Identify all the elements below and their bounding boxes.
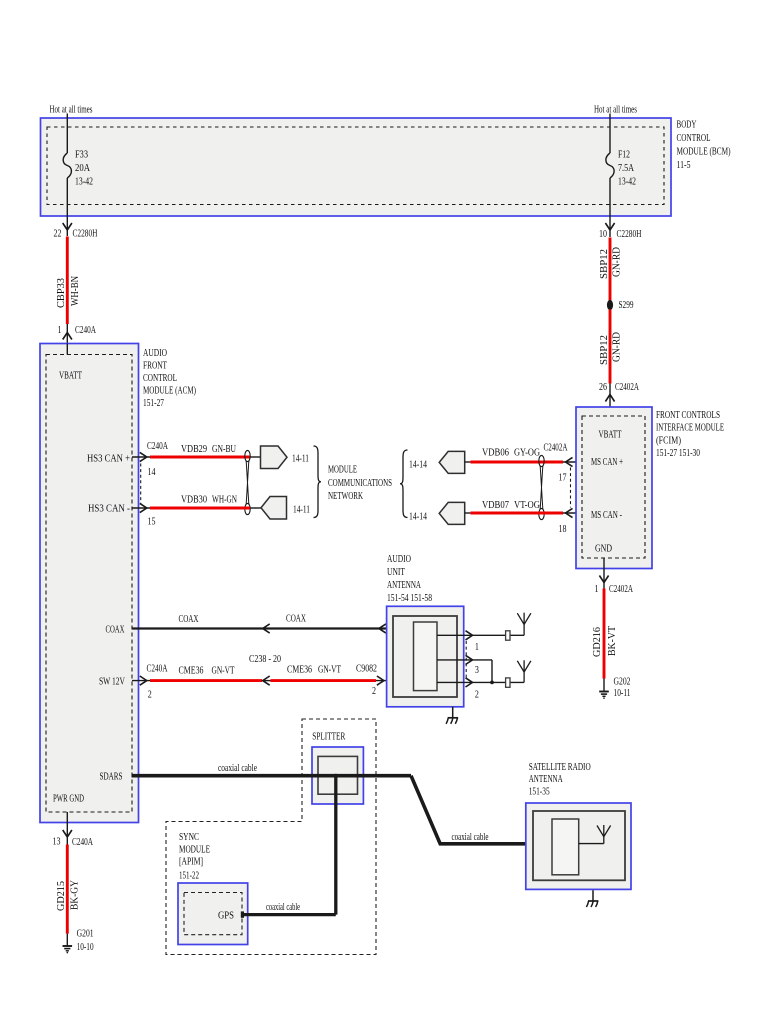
svg-text:CME36: CME36 (287, 665, 312, 676)
svg-text:VDB29: VDB29 (181, 444, 207, 455)
off-page connector 14-14 upper (pentagon) (439, 451, 465, 473)
svg-text:GY-OG: GY-OG (514, 448, 541, 459)
pin SDARS of ACM (100, 772, 123, 783)
svg-text:C240A: C240A (147, 441, 168, 452)
svg-text:[APIM]: [APIM] (179, 857, 203, 868)
wire: antenna pin 2 (437, 678, 524, 701)
svg-text:MODULE (BCM): MODULE (BCM) (677, 147, 731, 158)
svg-text:13: 13 (53, 837, 61, 848)
svg-text:10-11: 10-11 (614, 688, 631, 699)
svg-text:HS3 CAN +: HS3 CAN + (87, 454, 130, 465)
connector dashes antenna pins (465, 641, 467, 678)
svg-text:17: 17 (559, 473, 567, 484)
wire: stub to pentagon 14-11 lower (250, 507, 261, 509)
svg-text:COAX: COAX (286, 614, 306, 625)
pin GND of FCIM (595, 544, 612, 555)
svg-text:MS CAN +: MS CAN + (591, 457, 623, 468)
connector dashes C2402A pins 17-18 (570, 468, 572, 508)
wire: pentagon stub upper (465, 461, 471, 463)
svg-text:ANTENNA: ANTENNA (529, 774, 563, 785)
label AUDIO UNIT ANTENNA (387, 554, 432, 604)
svg-text:CONTROL: CONTROL (677, 133, 711, 144)
svg-text:MODULE: MODULE (179, 845, 210, 856)
svg-text:151-22: 151-22 (179, 871, 199, 882)
svg-text:BK-VT: BK-VT (607, 625, 618, 656)
arrow on COAX mid (263, 624, 270, 633)
wire SBP12 GN-RD lower (red) (599, 310, 623, 384)
wire CME36 GN-VT right (red) (271, 665, 377, 681)
svg-text:C238 - 20: C238 - 20 (249, 654, 281, 665)
pin HS3 CAN - of ACM (88, 504, 131, 515)
component box audio unit antenna (387, 606, 464, 707)
svg-text:GPS: GPS (218, 911, 234, 922)
wire: FCIM GND to connector (599, 558, 608, 589)
ferrite bead pin 2 (506, 678, 510, 687)
label ACM (143, 348, 196, 409)
ground (chassis) below satellite antenna (586, 890, 598, 907)
svg-text:20A: 20A (75, 163, 91, 174)
svg-text:151-27: 151-27 (143, 398, 164, 409)
svg-text:S299: S299 (619, 300, 634, 311)
svg-text:BK-GY: BK-GY (69, 879, 80, 910)
wire GD216 BK-VT (red) (592, 589, 618, 679)
svg-text:HS3 CAN -: HS3 CAN - (88, 504, 131, 515)
svg-text:GN-RD: GN-RD (611, 332, 622, 362)
svg-text:10: 10 (599, 229, 607, 240)
ground (chassis) below audio antenna (446, 707, 458, 724)
connector C2402A pin 18 (arrow into FCIM) (559, 508, 582, 535)
svg-text:GND: GND (595, 544, 612, 555)
svg-text:11-5: 11-5 (677, 160, 691, 171)
wire inside satellite antenna (579, 843, 604, 845)
ground G202 (599, 677, 630, 700)
svg-text:FRONT: FRONT (143, 361, 168, 372)
svg-text:C240A: C240A (147, 664, 168, 675)
svg-text:18: 18 (559, 524, 567, 535)
antenna symbol 1 (517, 613, 531, 636)
svg-text:COAX: COAX (179, 614, 199, 625)
component box splitter (312, 732, 363, 805)
svg-text:151-54 151-58: 151-54 151-58 (387, 593, 432, 604)
svg-text:GD216: GD216 (592, 627, 603, 657)
svg-text:MODULE (ACM): MODULE (ACM) (143, 386, 196, 397)
wire: ACM PWR GND to connector (63, 812, 72, 845)
svg-text:VBATT: VBATT (599, 430, 623, 441)
wire: pentagon stub lower (465, 512, 471, 514)
svg-text:UNIT: UNIT (387, 567, 406, 578)
pin MS CAN - of FCIM (591, 510, 622, 521)
wire: antenna pin 1 (437, 631, 524, 653)
connector C2402A pin 26 (arrow into FCIM) (599, 382, 639, 416)
splice S299 (607, 300, 634, 311)
svg-text:15: 15 (148, 517, 156, 528)
svg-text:SBP12: SBP12 (599, 335, 610, 365)
svg-text:14: 14 (148, 467, 156, 478)
wire SBP12 GN-RD upper (red) (599, 238, 623, 301)
label SATELLITE RADIO ANTENNA (529, 762, 591, 798)
svg-text:2: 2 (148, 690, 152, 701)
svg-text:GN-BU: GN-BU (212, 444, 236, 455)
svg-text:VDB07: VDB07 (482, 500, 509, 511)
in-line connector C238 pin 20 (249, 654, 281, 685)
pin COAX of ACM (106, 625, 125, 636)
twisted pair symbol left (245, 450, 250, 514)
antenna symbol 2 (517, 660, 531, 682)
wire VDB06 GY-OG (red) (470, 448, 563, 463)
svg-text:13-42: 13-42 (75, 177, 93, 188)
pin SW 12V of ACM (99, 677, 125, 688)
wire VDB30 WH-GN (red) (150, 495, 250, 509)
assembly dashed outline (splitter + sync module) (166, 719, 376, 955)
wire VDB07 VT-OG (red) (470, 500, 563, 513)
svg-text:CBP33: CBP33 (56, 278, 67, 308)
svg-text:C9082: C9082 (356, 664, 377, 675)
svg-text:C2402A: C2402A (544, 443, 568, 454)
terminal at GPS output (241, 911, 244, 917)
wire: ACM pin 14 stub (132, 441, 168, 478)
svg-text:10-10: 10-10 (77, 942, 94, 953)
wire CBP33 WH-BN (red) (56, 237, 81, 325)
node: Hot at all times (right feed) (594, 105, 637, 116)
svg-text:1: 1 (475, 642, 479, 653)
connector C9082 pin 2 (arrow into antenna) (356, 664, 414, 698)
svg-text:7.5A: 7.5A (618, 163, 635, 174)
svg-text:CONTROL: CONTROL (143, 373, 177, 384)
svg-text:SDARS: SDARS (100, 772, 123, 783)
svg-text:SYNC: SYNC (179, 832, 199, 843)
wire CME36 GN-VT left (red) (150, 666, 262, 681)
svg-text:2: 2 (475, 690, 479, 701)
off-page connector 14-11 lower (261, 497, 310, 520)
svg-text:WH-GN: WH-GN (212, 495, 237, 506)
brace left of 14-14 connectors (400, 450, 408, 518)
svg-text:INTERFACE MODULE: INTERFACE MODULE (656, 423, 724, 434)
wire: left feed into BCM fuse F33 (66, 114, 68, 154)
off-page connector 14-14 lower (pentagon) (439, 502, 465, 524)
svg-text:BODY: BODY (677, 120, 697, 131)
svg-text:(FCIM): (FCIM) (656, 436, 681, 447)
label SYNC MODULE [APIM] (179, 832, 210, 882)
connector C2280H pin 10 (arrow into connector) (599, 223, 642, 240)
wire: ACM pin 15 stub (132, 503, 156, 527)
svg-text:VT-OG: VT-OG (514, 500, 541, 511)
svg-text:CME36: CME36 (179, 666, 204, 677)
wire: GPS coaxial cable to splitter (244, 902, 336, 915)
svg-text:COMMUNICATIONS: COMMUNICATIONS (328, 478, 392, 489)
wire: antenna pin 3 (437, 655, 492, 676)
svg-text:C2280H: C2280H (617, 229, 642, 240)
module box FCIM (Front Controls Interface Module) (576, 407, 652, 569)
svg-text:GN-VT: GN-VT (212, 666, 236, 677)
svg-text:COAX: COAX (106, 625, 125, 636)
svg-text:AUDIO: AUDIO (387, 554, 411, 565)
pin MS CAN + of FCIM (591, 457, 623, 468)
svg-text:coaxial cable: coaxial cable (218, 763, 257, 774)
wire: F33 to BCM edge (66, 178, 68, 236)
connector dashes C240A pins 14-15 (140, 464, 142, 504)
svg-text:13-42: 13-42 (618, 177, 636, 188)
svg-text:1: 1 (58, 325, 62, 336)
svg-text:14-11: 14-11 (292, 454, 309, 465)
svg-text:NETWORK: NETWORK (328, 491, 363, 502)
wire: pin 3 drop to pin 2 (491, 660, 493, 683)
svg-text:F33: F33 (75, 150, 88, 161)
svg-text:AUDIO: AUDIO (143, 348, 167, 359)
wire: F12 to BCM edge (609, 178, 611, 237)
brace right of 14-11 connectors (314, 446, 322, 518)
wire GD215 BK-GY (red) (56, 845, 80, 934)
wire: splitter down to GPS branch (334, 776, 337, 915)
svg-text:14-11: 14-11 (293, 505, 310, 516)
svg-text:C2402A: C2402A (609, 584, 633, 595)
svg-text:C240A: C240A (72, 837, 93, 848)
svg-text:FRONT CONTROLS: FRONT CONTROLS (656, 410, 720, 421)
label 14-14 lower (409, 512, 427, 523)
label 14-14 upper (409, 460, 427, 471)
wire COAX (ACM to antenna) (132, 614, 414, 629)
svg-text:26: 26 (599, 382, 607, 393)
wire: diagonal coaxial to satellite antenna (411, 776, 552, 844)
svg-text:PWR GND: PWR GND (53, 794, 84, 805)
junction pin3/pin2 (490, 681, 494, 685)
svg-text:22: 22 (54, 229, 62, 240)
ferrite bead pin 1 (506, 631, 510, 640)
svg-text:C240A: C240A (75, 325, 96, 336)
node: Hot at all times (left feed) (50, 105, 93, 116)
label BCM (677, 120, 731, 172)
arrow on COAX at antenna (379, 624, 386, 633)
svg-text:WH-BN: WH-BN (70, 275, 81, 306)
pin HS3 CAN + of ACM (87, 454, 130, 465)
svg-text:Hot at all times: Hot at all times (594, 105, 637, 116)
wire: right feed into BCM fuse F12 (609, 114, 611, 154)
label FCIM (656, 410, 724, 459)
svg-text:SW 12V: SW 12V (99, 677, 125, 688)
connector C240A pin 1 (arrow into ACM) (58, 324, 97, 344)
svg-text:coaxial cable: coaxial cable (452, 832, 489, 843)
svg-text:SATELLITE RADIO: SATELLITE RADIO (529, 762, 591, 773)
svg-text:G201: G201 (77, 929, 94, 940)
wire VDB29 GN-BU (red) (150, 444, 250, 457)
svg-text:VDB06: VDB06 (482, 448, 509, 459)
pin PWR GND of ACM (53, 794, 84, 805)
connector C2402A pin 17 (arrow into FCIM) (544, 443, 582, 484)
fuse F12 7.5A (606, 150, 636, 188)
svg-text:MS CAN -: MS CAN - (591, 510, 622, 521)
svg-text:F12: F12 (618, 150, 630, 161)
svg-text:151-27 151-30: 151-27 151-30 (656, 448, 700, 459)
svg-text:MODULE: MODULE (328, 465, 357, 476)
svg-text:G202: G202 (614, 677, 631, 688)
svg-text:VDB30: VDB30 (181, 495, 207, 506)
svg-text:ANTENNA: ANTENNA (387, 580, 421, 591)
component box GPS (in APIM) (178, 883, 248, 945)
connector C240A pin 13 (53, 837, 94, 849)
module box BCM (Body Control Module) (41, 118, 672, 216)
connector C2402A pin 1 (595, 584, 634, 595)
svg-text:14-14: 14-14 (409, 460, 427, 471)
svg-text:Hot at all times: Hot at all times (50, 105, 93, 116)
module box ACM (Audio Front Control Module) (40, 344, 139, 823)
svg-text:C2280H: C2280H (73, 229, 98, 240)
svg-text:1: 1 (595, 584, 599, 595)
svg-text:2: 2 (372, 686, 376, 697)
label MODULE COMMUNICATIONS NETWORK (328, 465, 392, 503)
svg-text:GD215: GD215 (56, 881, 67, 911)
pin VBATT of ACM (59, 344, 83, 382)
fuse F33 20A (63, 150, 93, 188)
twisted pair symbol right (539, 455, 544, 519)
svg-text:151-35: 151-35 (529, 787, 550, 798)
connector C2280H pin 22 (arrow into connector) (54, 223, 98, 240)
svg-text:C2402A: C2402A (615, 382, 639, 393)
svg-text:14-14: 14-14 (409, 512, 427, 523)
junction in splitter (334, 774, 338, 778)
ground G201 (63, 929, 94, 954)
svg-text:GN-RD: GN-RD (611, 247, 622, 277)
svg-text:GN-VT: GN-VT (318, 665, 342, 676)
svg-text:SPLITTER: SPLITTER (312, 732, 345, 743)
svg-text:SBP12: SBP12 (599, 249, 610, 279)
antenna symbol satellite (597, 825, 611, 844)
off-page connector 14-11 (to module comms network) (261, 446, 310, 469)
component box satellite radio antenna (526, 803, 631, 889)
wire SDARS coaxial cable (thick) (132, 763, 412, 776)
wire: SW 12V pin stub C240A pin 2 (132, 664, 168, 701)
svg-text:coaxial cable: coaxial cable (266, 902, 300, 913)
svg-text:VBATT: VBATT (59, 371, 83, 382)
svg-text:3: 3 (475, 665, 479, 676)
pin VBATT of FCIM (599, 430, 623, 441)
wire: stub to pentagon 14-11 upper (250, 456, 261, 458)
